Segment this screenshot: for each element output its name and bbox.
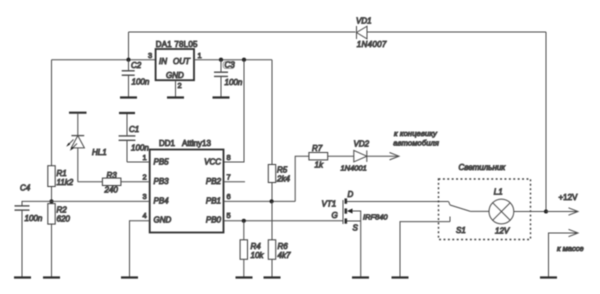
svg-text:D: D <box>348 190 354 199</box>
wire DD1 GND pin4 <box>130 221 150 278</box>
arrow to limit switch <box>390 153 400 160</box>
svg-text:12V: 12V <box>495 227 510 236</box>
svg-text:1: 1 <box>198 51 202 60</box>
svg-text:R3: R3 <box>107 171 118 180</box>
ground R4 <box>236 276 253 278</box>
svg-text:8: 8 <box>227 153 231 162</box>
svg-text:100n: 100n <box>225 78 243 87</box>
svg-text:OUT: OUT <box>173 57 191 66</box>
svg-text:620: 620 <box>57 215 71 224</box>
wire divider node to PB4 <box>52 200 150 202</box>
label C3 <box>223 61 235 70</box>
wire input rail y=59.7 <box>52 59 156 61</box>
ground R6 <box>264 276 281 278</box>
node junction C2 <box>126 58 130 62</box>
svg-text:S1: S1 <box>456 226 466 235</box>
svg-text:VD2: VD2 <box>354 140 370 149</box>
svg-text:VD1: VD1 <box>356 17 372 26</box>
lamp L1 <box>489 199 514 224</box>
svg-text:Attiny13: Attiny13 <box>182 139 211 148</box>
svg-text:IN: IN <box>159 57 167 66</box>
resistor R3 <box>102 178 121 185</box>
wire R5 riser from 5V rail <box>271 60 273 165</box>
wire R5 to PB1 node <box>271 183 273 202</box>
wire HL1 to R3 <box>78 181 103 183</box>
resistor R7 <box>309 153 328 160</box>
wire from top rail down to C2 node <box>128 32 130 60</box>
wire VCC riser <box>224 60 245 162</box>
ground DD1 <box>121 276 138 278</box>
wire R1 to node <box>51 187 53 202</box>
svg-text:VCC: VCC <box>204 158 221 167</box>
wire R2 to ground <box>51 224 53 278</box>
svg-text:R2: R2 <box>57 206 68 215</box>
svg-text:1: 1 <box>143 153 147 162</box>
svg-text:R5: R5 <box>277 166 288 175</box>
arrow +12V <box>569 208 579 215</box>
lamp box dashed <box>439 179 531 240</box>
svg-text:VT1: VT1 <box>322 200 337 209</box>
svg-text:Светильник: Светильник <box>459 163 507 172</box>
svg-text:10k: 10k <box>251 251 265 260</box>
wire switch bottom contact to ground riser <box>400 222 450 278</box>
wire switch to lamp <box>470 210 489 212</box>
svg-text:R7: R7 <box>312 144 323 153</box>
switch S1 <box>449 202 471 222</box>
wire lamp to +12V node <box>514 211 546 213</box>
svg-text:к концевику: к концевику <box>394 129 438 138</box>
svg-text:DD1: DD1 <box>159 139 176 148</box>
ground C2 <box>120 96 137 98</box>
node +12V junction <box>544 209 548 213</box>
wire R3 to PB3 <box>121 181 150 183</box>
node PB1 junction <box>270 199 274 203</box>
svg-text:100n: 100n <box>131 144 149 153</box>
svg-text:PB4: PB4 <box>154 197 170 206</box>
resistor R6 <box>268 201 275 277</box>
wire pin1 stub to C1 <box>127 161 150 163</box>
node R4 junction <box>242 219 246 223</box>
capacitor C2 <box>122 60 135 98</box>
wire +12V arrow <box>546 211 577 213</box>
svg-text:11k2: 11k2 <box>57 178 74 187</box>
svg-text:к массе: к массе <box>557 244 584 253</box>
svg-text:240: 240 <box>104 186 119 195</box>
diode VD1 <box>357 26 368 39</box>
svg-text:R1: R1 <box>57 169 67 178</box>
resistor R1 <box>48 166 55 187</box>
wire riser to R7 <box>295 156 309 201</box>
arrow k masse <box>569 229 579 236</box>
ground VT1 source <box>352 276 369 278</box>
svg-text:+12V: +12V <box>559 193 579 202</box>
chip DD1 ATtiny13 <box>150 150 224 233</box>
svg-text:C1: C1 <box>129 125 139 134</box>
svg-text:2: 2 <box>178 81 182 90</box>
svg-text:HL1: HL1 <box>92 148 107 157</box>
svg-text:R6: R6 <box>278 242 289 251</box>
svg-text:1N4001: 1N4001 <box>341 164 367 173</box>
node divider junction <box>49 199 53 203</box>
resistor R2 <box>48 204 55 225</box>
svg-text:6: 6 <box>227 192 231 201</box>
wire PB0 row to gate <box>224 220 344 222</box>
ground C1 top <box>119 112 135 114</box>
wire pin7 stub <box>224 181 246 183</box>
ground lamp return <box>392 276 409 278</box>
svg-text:1k: 1k <box>315 161 324 170</box>
capacitor C4 <box>15 206 30 278</box>
diode VD2 <box>354 150 367 162</box>
wire VD2 to connector arrow <box>367 155 398 157</box>
ground C4 <box>14 276 31 278</box>
svg-text:PB3: PB3 <box>154 177 170 186</box>
svg-text:L1: L1 <box>494 188 503 197</box>
resistor R4 <box>240 221 247 278</box>
wire PB1 row <box>224 200 296 202</box>
wire 5V rail from OUT <box>194 59 272 61</box>
wire R7 to VD2 <box>328 155 354 157</box>
svg-text:DA1 78L05: DA1 78L05 <box>156 40 198 49</box>
wire top rail right of VD1 <box>367 31 546 33</box>
svg-text:4: 4 <box>143 211 147 220</box>
capacitor C1 <box>119 113 136 162</box>
svg-text:C2: C2 <box>131 61 142 70</box>
svg-text:PB0: PB0 <box>206 216 222 225</box>
svg-text:2k4: 2k4 <box>276 175 290 184</box>
svg-text:2: 2 <box>143 173 147 182</box>
svg-text:PB5: PB5 <box>154 158 170 167</box>
svg-text:5: 5 <box>227 211 231 220</box>
ground C3 <box>213 96 230 98</box>
svg-text:IRF840: IRF840 <box>363 213 388 222</box>
ground R2 <box>43 276 60 278</box>
transistor VT1 IRF840 <box>343 198 361 277</box>
wire k masse stub <box>549 233 578 278</box>
svg-text:G: G <box>332 211 338 220</box>
svg-text:100n: 100n <box>132 78 150 87</box>
regulator DA1 78L05 <box>156 49 194 80</box>
svg-text:4k7: 4k7 <box>278 251 291 260</box>
svg-text:PB1: PB1 <box>206 197 221 206</box>
svg-text:PB2: PB2 <box>206 177 222 186</box>
wire right +12V rail vertical <box>545 32 547 212</box>
wire node to C4 <box>22 201 52 205</box>
svg-text:автомобиля: автомобиля <box>393 139 439 148</box>
capacitor C3 <box>214 60 228 98</box>
node junction VCC riser <box>242 58 246 62</box>
ground DA1 <box>167 96 184 98</box>
svg-text:1N4007: 1N4007 <box>357 40 387 49</box>
svg-text:3: 3 <box>143 192 147 201</box>
svg-text:S: S <box>353 224 359 233</box>
led HL1 <box>66 113 86 182</box>
svg-text:R4: R4 <box>251 242 262 251</box>
wire drain to switch <box>352 201 449 203</box>
svg-text:100n: 100n <box>25 214 43 223</box>
wire DA1 GND stem <box>175 80 177 97</box>
svg-text:3: 3 <box>148 51 152 60</box>
svg-text:GND: GND <box>154 216 172 225</box>
resistor R5 <box>268 165 275 183</box>
svg-text:C4: C4 <box>20 184 31 193</box>
svg-text:C3: C3 <box>225 61 236 70</box>
wire top rail left of VD1 <box>129 31 356 33</box>
ground k masse <box>540 276 557 278</box>
svg-text:GND: GND <box>166 71 184 80</box>
svg-text:7: 7 <box>227 173 231 182</box>
wire left rail down to R1 <box>51 60 53 166</box>
node junction C3 <box>219 58 223 62</box>
